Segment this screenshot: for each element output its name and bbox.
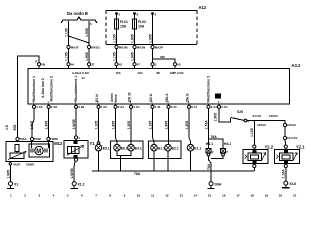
svg-text:1 A2: 1 A2 xyxy=(101,105,108,109)
svg-text:1.105: 1.105 xyxy=(112,52,116,61)
svg-text:1.905: 1.905 xyxy=(111,121,115,130)
svg-text:T05B: T05B xyxy=(34,137,42,141)
svg-text:1.905: 1.905 xyxy=(213,113,217,122)
svg-text:2: 2 xyxy=(24,194,26,198)
svg-text:2 A4: 2 A4 xyxy=(221,105,228,109)
svg-text:1.305: 1.305 xyxy=(185,121,189,130)
svg-text:1.5: 1.5 xyxy=(5,125,9,130)
svg-text:1.105: 1.105 xyxy=(112,34,116,43)
svg-text:A3.2: A3.2 xyxy=(292,63,302,68)
svg-text:8: 8 xyxy=(109,194,111,198)
svg-text:17: 17 xyxy=(236,194,240,198)
svg-text:MA2F: MA2F xyxy=(71,46,79,50)
svg-text:56a B: 56a B xyxy=(185,93,189,102)
svg-text:M: M xyxy=(36,149,41,155)
svg-text:MA2P: MA2P xyxy=(155,46,163,50)
svg-text:4: 4 xyxy=(53,194,55,198)
svg-text:10: 10 xyxy=(137,194,141,198)
svg-text:M12: M12 xyxy=(54,141,63,146)
svg-text:14: 14 xyxy=(194,194,198,198)
svg-text:1.105: 1.105 xyxy=(250,128,254,137)
svg-text:D6A: D6A xyxy=(215,183,222,187)
svg-text:1.105: 1.105 xyxy=(64,52,68,61)
svg-text:21: 21 xyxy=(293,194,297,198)
svg-text:18: 18 xyxy=(250,194,254,198)
svg-text:Multifunzione 2: Multifunzione 2 xyxy=(49,76,53,102)
svg-text:2N: 2N xyxy=(41,63,45,67)
svg-text:AMP CAN: AMP CAN xyxy=(170,71,184,75)
svg-text:FL02: FL02 xyxy=(138,20,146,24)
svg-text:E5.1: E5.1 xyxy=(103,146,110,150)
svg-text:1.76A: 1.76A xyxy=(204,120,208,130)
svg-text:1.905: 1.905 xyxy=(164,121,168,130)
svg-text:1.905: 1.905 xyxy=(6,170,10,179)
svg-text:2 A3: 2 A3 xyxy=(118,105,125,109)
svg-text:Multifunzione 1: Multifunzione 1 xyxy=(32,76,36,102)
svg-text:A-Mod CAN: A-Mod CAN xyxy=(72,71,89,75)
svg-text:105A0: 105A0 xyxy=(269,114,278,118)
svg-text:S25: S25 xyxy=(237,110,243,114)
svg-text:47: 47 xyxy=(137,63,141,67)
svg-text:X1: X1 xyxy=(14,183,18,187)
svg-text:76A: 76A xyxy=(211,135,218,139)
svg-text:X2: X2 xyxy=(82,76,86,80)
svg-text:905: 905 xyxy=(13,125,17,131)
svg-text:1.305: 1.305 xyxy=(127,121,131,130)
svg-text:8 47: 8 47 xyxy=(191,105,197,109)
svg-text:305: 305 xyxy=(160,55,165,59)
svg-text:194: 194 xyxy=(138,71,143,75)
svg-text:A12: A12 xyxy=(199,5,207,10)
svg-text:195: 195 xyxy=(116,71,121,75)
svg-text:13: 13 xyxy=(179,194,183,198)
svg-text:1 A5: 1 A5 xyxy=(36,105,43,109)
svg-text:MA2G: MA2G xyxy=(91,46,100,50)
svg-text:76A: 76A xyxy=(134,172,141,176)
svg-text:Da nodo B: Da nodo B xyxy=(67,11,88,16)
svg-text:ohne: ohne xyxy=(114,94,118,102)
svg-text:T05M: T05M xyxy=(50,137,58,141)
svg-text:T05A: T05A xyxy=(19,137,27,141)
svg-text:IX2 kl: IX2 kl xyxy=(149,94,153,102)
svg-text:E1.1: E1.1 xyxy=(194,146,201,150)
svg-text:43: 43 xyxy=(177,63,181,67)
svg-text:3 A4: 3 A4 xyxy=(133,105,140,109)
svg-text:1.905: 1.905 xyxy=(85,28,89,37)
svg-text:EXI 30: EXI 30 xyxy=(127,92,131,102)
svg-text:1: 1 xyxy=(10,194,12,198)
svg-text:H4.1: H4.1 xyxy=(206,142,213,146)
svg-text:105A0: 105A0 xyxy=(287,123,296,127)
svg-text:3 B1: 3 B1 xyxy=(78,105,85,109)
svg-text:1.905: 1.905 xyxy=(85,52,89,61)
svg-text:44: 44 xyxy=(71,63,75,67)
svg-text:Multifunzione 3: Multifunzione 3 xyxy=(206,76,210,102)
svg-text:20: 20 xyxy=(279,194,283,198)
svg-text:16: 16 xyxy=(222,194,226,198)
svg-text:X1.2: X1.2 xyxy=(78,183,85,187)
svg-text:1.W05: 1.W05 xyxy=(70,168,74,178)
svg-text:1.905: 1.905 xyxy=(130,34,134,43)
svg-text:1.905: 1.905 xyxy=(30,121,34,130)
svg-text:4A2F: 4A2F xyxy=(13,162,21,166)
svg-text:105A0: 105A0 xyxy=(257,123,266,127)
svg-text:1.305: 1.305 xyxy=(148,34,152,43)
svg-text:MA2M: MA2M xyxy=(119,46,128,50)
svg-text:2 A6: 2 A6 xyxy=(51,105,58,109)
svg-text:19: 19 xyxy=(265,194,269,198)
svg-text:9: 9 xyxy=(124,194,126,198)
svg-text:10A: 10A xyxy=(138,25,145,29)
svg-text:43: 43 xyxy=(119,63,123,67)
svg-text:8-CAV: 8-CAV xyxy=(253,114,262,118)
svg-text:7: 7 xyxy=(212,150,214,154)
svg-text:1.105: 1.105 xyxy=(94,121,98,130)
svg-text:MA2N: MA2N xyxy=(137,46,146,50)
svg-text:CM2E: CM2E xyxy=(26,162,34,166)
svg-text:H4.1: H4.1 xyxy=(224,142,231,146)
svg-text:12: 12 xyxy=(165,194,169,198)
svg-text:Y1: Y1 xyxy=(90,141,96,146)
svg-text:7: 7 xyxy=(226,150,228,154)
svg-text:27: 27 xyxy=(91,63,95,67)
svg-text:H1.1: H1.1 xyxy=(158,146,165,150)
svg-text:2 A3: 2 A3 xyxy=(211,105,218,109)
svg-text:7: 7 xyxy=(95,194,97,198)
svg-text:15A: 15A xyxy=(120,25,127,29)
svg-text:3 44: 3 44 xyxy=(171,105,177,109)
svg-text:1.16A: 1.16A xyxy=(281,169,285,179)
svg-text:3: 3 xyxy=(38,194,40,198)
svg-text:Riscaldament 1: Riscaldament 1 xyxy=(74,76,78,102)
svg-text:Y2.1: Y2.1 xyxy=(296,145,305,150)
svg-text:1 31: 1 31 xyxy=(155,105,161,109)
svg-text:15: 15 xyxy=(208,194,212,198)
svg-text:1.905: 1.905 xyxy=(130,52,134,61)
svg-text:1.105: 1.105 xyxy=(64,28,68,37)
svg-text:56b A: 56b A xyxy=(165,93,169,102)
svg-text:88: 88 xyxy=(157,71,161,75)
svg-text:5: 5 xyxy=(67,194,69,198)
svg-text:Y2.2: Y2.2 xyxy=(265,145,274,150)
svg-text:E6.1: E6.1 xyxy=(121,146,128,150)
svg-text:1.305: 1.305 xyxy=(44,121,48,130)
svg-text:1.W05: 1.W05 xyxy=(72,119,76,129)
svg-text:Ø1 kl: Ø1 kl xyxy=(95,94,99,102)
svg-text:10-CAV: 10-CAV xyxy=(287,136,297,140)
svg-text:6: 6 xyxy=(81,194,83,198)
svg-text:1.105: 1.105 xyxy=(148,121,152,130)
svg-text:A-bus low 2: A-bus low 2 xyxy=(41,78,45,98)
svg-text:X4.6: X4.6 xyxy=(289,182,296,186)
svg-text:E2.1: E2.1 xyxy=(172,146,179,150)
svg-text:76A: 76A xyxy=(207,163,211,170)
svg-text:E4.1: E4.1 xyxy=(135,146,142,150)
svg-text:11: 11 xyxy=(151,194,155,198)
svg-text:FL01: FL01 xyxy=(120,20,128,24)
